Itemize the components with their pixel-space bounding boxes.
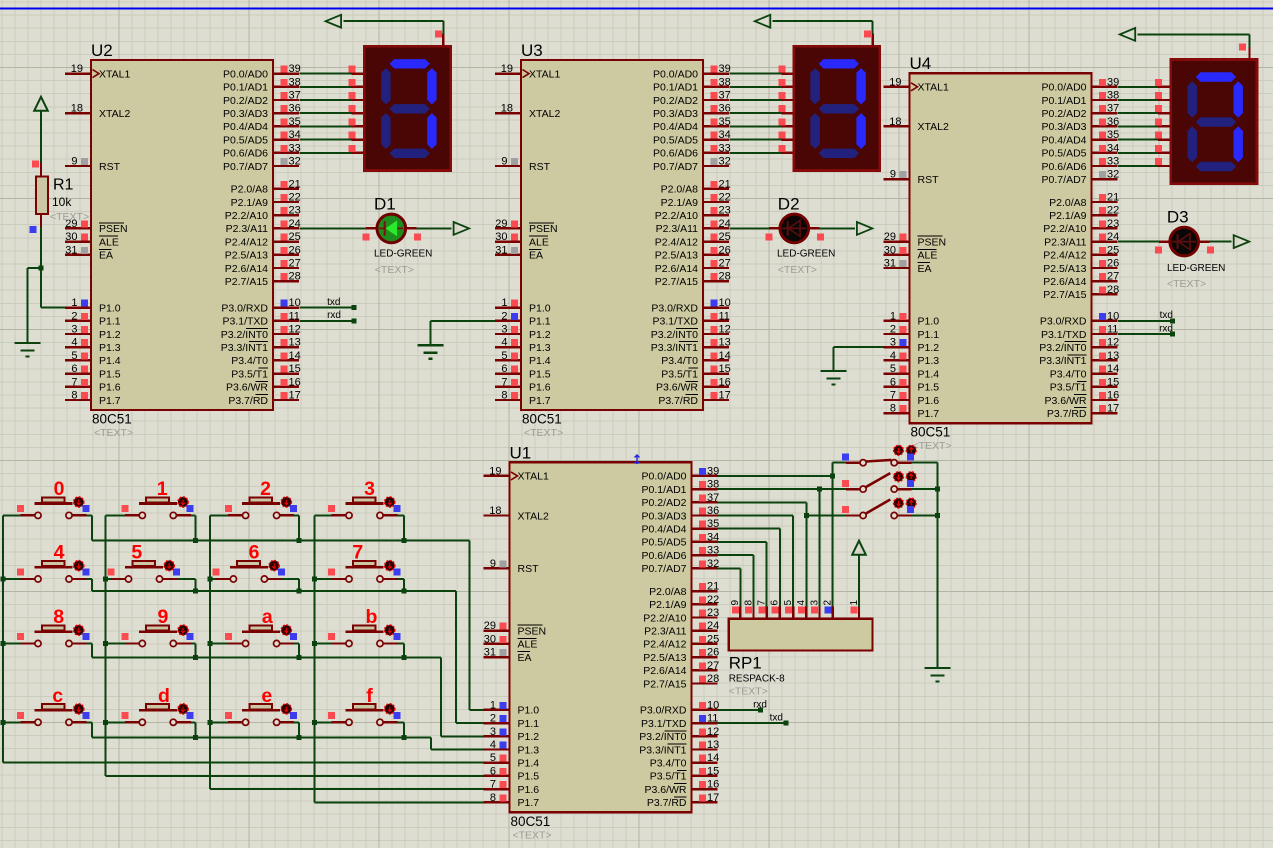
junction row1-col2 [296, 589, 301, 594]
svg-text:U1: U1 [510, 443, 532, 462]
svg-text:P2.1/A9: P2.1/A9 [1049, 210, 1087, 222]
svg-text:26: 26 [707, 647, 719, 659]
svg-text:24: 24 [1107, 231, 1119, 243]
svg-text:P2.0/A8: P2.0/A8 [1049, 197, 1087, 209]
svg-text:7: 7 [490, 779, 496, 791]
svg-text:P2.2/A10: P2.2/A10 [643, 612, 686, 624]
junction C [817, 487, 822, 492]
svg-text:LED-GREEN: LED-GREEN [777, 249, 835, 260]
svg-text:4: 4 [501, 337, 507, 349]
wire U1 rxd [718, 699, 768, 712]
LED D1 labels [374, 195, 432, 277]
ground GND1 [14, 343, 40, 357]
ground GND3 [820, 371, 846, 385]
svg-text:28: 28 [707, 673, 719, 685]
svg-text:29: 29 [884, 231, 896, 243]
svg-text:P1.4: P1.4 [518, 758, 540, 770]
svg-text:36: 36 [289, 103, 301, 115]
junction row0-col3 [401, 538, 406, 543]
wire display DS3 common to terminal [1138, 34, 1250, 59]
svg-text:36: 36 [707, 505, 719, 517]
svg-text:txd: txd [770, 713, 783, 724]
svg-text:a: a [262, 606, 273, 628]
svg-text:P0.1/AD1: P0.1/AD1 [223, 82, 268, 94]
svg-text:<TEXT>: <TEXT> [375, 264, 414, 276]
svg-text:2: 2 [71, 310, 77, 322]
svg-text:39: 39 [1107, 76, 1119, 88]
svg-text:P3.6/WR: P3.6/WR [226, 382, 268, 394]
junction col2-row3 [208, 720, 213, 725]
svg-text:21: 21 [1107, 192, 1119, 204]
svg-text:P2.4/A12: P2.4/A12 [1043, 250, 1086, 262]
svg-text:P1.7: P1.7 [518, 797, 540, 809]
svg-text:P2.1/A9: P2.1/A9 [649, 599, 687, 611]
svg-text:1: 1 [71, 297, 77, 309]
svg-text:12: 12 [289, 324, 301, 336]
svg-text:P1.6: P1.6 [918, 395, 940, 407]
svg-text:rxd: rxd [753, 699, 767, 710]
wire U2 P2.3 to LED D1 [300, 228, 452, 240]
svg-text:P1.1: P1.1 [518, 718, 540, 730]
svg-text:26: 26 [1107, 258, 1119, 270]
LED D1 (lit) [377, 214, 406, 243]
svg-text:P3.2/INT0: P3.2/INT0 [651, 329, 698, 341]
junction A [39, 266, 44, 271]
svg-text:7: 7 [501, 376, 507, 388]
junction col1-row1 [103, 577, 108, 582]
junction B [830, 473, 835, 478]
svg-text:10: 10 [707, 699, 719, 711]
svg-text:6: 6 [770, 600, 781, 606]
svg-text:6: 6 [490, 765, 496, 777]
svg-text:P3.3/INT1: P3.3/INT1 [639, 744, 686, 756]
svg-text:15: 15 [719, 363, 731, 375]
svg-text:8: 8 [71, 390, 77, 402]
svg-text:19: 19 [71, 63, 83, 75]
svg-text:9: 9 [890, 169, 896, 181]
svg-text:38: 38 [289, 76, 301, 88]
svg-text:11: 11 [707, 713, 718, 725]
svg-text:38: 38 [719, 76, 731, 88]
svg-text:P0.1/AD1: P0.1/AD1 [653, 82, 698, 94]
U2 designator label [91, 41, 113, 60]
svg-text:11: 11 [289, 310, 300, 322]
wires U4 P0.0-P0.6 to display DS3 [1118, 79, 1171, 166]
U2 right pins [221, 63, 301, 407]
push button BTND key d [106, 685, 196, 737]
IC U2 80C51 body [91, 60, 273, 410]
svg-text:9: 9 [490, 558, 496, 570]
svg-text:24: 24 [289, 218, 301, 230]
U1 value label 80C51 [511, 814, 551, 829]
svg-text:13: 13 [289, 337, 301, 349]
svg-text:30: 30 [884, 244, 896, 256]
svg-text:XTAL1: XTAL1 [529, 68, 560, 80]
svg-text:txd: txd [1160, 310, 1173, 321]
push button BTN0 key 0 [3, 478, 92, 540]
7-segment display DS1 [364, 46, 450, 170]
svg-text:P1.0: P1.0 [918, 316, 940, 328]
push button BTN5 key 5 [106, 542, 196, 591]
svg-text:P0.7/AD7: P0.7/AD7 [653, 161, 698, 173]
svg-text:30: 30 [65, 231, 77, 243]
svg-text:1: 1 [890, 310, 896, 322]
svg-text:4: 4 [796, 600, 807, 606]
svg-text:P0.2/AD2: P0.2/AD2 [1042, 108, 1087, 120]
svg-text:4: 4 [71, 337, 77, 349]
svg-text:U4: U4 [910, 54, 932, 73]
svg-text:2: 2 [822, 600, 833, 606]
svg-text:5: 5 [501, 350, 507, 362]
svg-text:10: 10 [289, 297, 301, 309]
svg-text:P2.1/A9: P2.1/A9 [231, 197, 269, 209]
U3 designator label [521, 41, 543, 60]
svg-text:P1.2: P1.2 [99, 329, 121, 341]
svg-text:27: 27 [707, 660, 719, 672]
svg-text:P2.2/A10: P2.2/A10 [655, 210, 698, 222]
svg-text:XTAL2: XTAL2 [518, 510, 549, 522]
push button BTNF key f [315, 685, 404, 737]
svg-text:16: 16 [719, 376, 731, 388]
svg-text:P0.5/AD5: P0.5/AD5 [642, 537, 687, 549]
svg-text:9: 9 [71, 156, 77, 168]
LED D2 labels [777, 195, 835, 277]
junction row2-col1 [193, 655, 198, 660]
svg-text:P0.6/AD6: P0.6/AD6 [223, 148, 268, 160]
svg-text:<TEXT>: <TEXT> [50, 211, 89, 223]
svg-text:P0.7/AD7: P0.7/AD7 [1042, 174, 1087, 186]
junction row2-col2 [296, 655, 301, 660]
svg-text:XTAL2: XTAL2 [99, 108, 130, 120]
svg-text:6: 6 [890, 376, 896, 388]
svg-text:5: 5 [890, 363, 896, 375]
junction col0-row2 [1, 641, 6, 646]
svg-text:P2.0/A8: P2.0/A8 [649, 586, 687, 598]
svg-text:80C51: 80C51 [511, 814, 551, 829]
svg-text:37: 37 [1107, 103, 1119, 115]
svg-text:0: 0 [54, 478, 65, 500]
svg-text:P1.3: P1.3 [518, 744, 540, 756]
wire VCC2 to RP1 pin 1 [858, 555, 860, 607]
svg-text:P0.4/AD4: P0.4/AD4 [642, 524, 687, 536]
svg-text:P2.5/A13: P2.5/A13 [655, 250, 698, 262]
junction col3-row1 [312, 577, 317, 582]
svg-text:14: 14 [289, 350, 301, 362]
wire U2 txd [300, 297, 357, 310]
svg-text:P0.5/AD5: P0.5/AD5 [653, 134, 698, 146]
terminal arrow T3 [755, 15, 771, 28]
svg-text:P2.0/A8: P2.0/A8 [231, 184, 269, 196]
svg-text:17: 17 [719, 390, 731, 402]
wire keypad column bus 3 to U1 P1.7 [315, 515, 484, 802]
svg-text:<TEXT>: <TEXT> [524, 427, 563, 439]
svg-text:XTAL1: XTAL1 [518, 471, 549, 483]
svg-text:P0.6/AD6: P0.6/AD6 [653, 148, 698, 160]
svg-text:28: 28 [289, 271, 301, 283]
svg-text:P3.4/T0: P3.4/T0 [650, 758, 687, 770]
junction row0-col1 [193, 538, 198, 543]
svg-text:38: 38 [1107, 90, 1119, 102]
svg-text:9: 9 [157, 606, 168, 628]
wire U1 txd [718, 713, 789, 726]
svg-text:2: 2 [890, 324, 896, 336]
terminal arrow T6 [1234, 235, 1250, 248]
svg-text:P1.2: P1.2 [518, 731, 540, 743]
wire keypad column bus 1 to U1 P1.5 [106, 515, 484, 776]
svg-text:P2.5/A13: P2.5/A13 [1043, 263, 1086, 275]
svg-text:P1.7: P1.7 [99, 395, 121, 407]
LED D2 (off) [780, 214, 809, 243]
svg-text:P2.3/A11: P2.3/A11 [644, 626, 687, 638]
junction col3-row3 [312, 720, 317, 725]
svg-text:P0.2/AD2: P0.2/AD2 [653, 95, 698, 107]
svg-text:P2.7/A15: P2.7/A15 [225, 276, 268, 288]
svg-text:ALE: ALE [529, 236, 549, 248]
wire U4 P2.3 to LED D3 [1118, 242, 1231, 254]
wires U3 P0.0-P0.6 to display DS2 [730, 66, 794, 153]
U4 property label [913, 440, 952, 452]
ground GND2 [418, 345, 444, 359]
wire P0.1 to SW2 [820, 488, 847, 490]
svg-text:P1.0: P1.0 [99, 302, 121, 314]
svg-text:P3.6/WR: P3.6/WR [656, 382, 698, 394]
junction E [935, 487, 940, 492]
svg-text:P1.3: P1.3 [529, 342, 551, 354]
svg-text:P1.0: P1.0 [529, 302, 551, 314]
junction D [804, 513, 809, 518]
svg-text:P2.6/A14: P2.6/A14 [1043, 276, 1086, 288]
svg-text:P1.6: P1.6 [518, 784, 540, 796]
svg-text:1: 1 [157, 478, 168, 500]
RP1 labels [729, 654, 785, 698]
svg-text:ALE: ALE [518, 639, 538, 651]
U1 designator label [510, 443, 532, 462]
svg-text:7: 7 [71, 376, 77, 388]
svg-text:5: 5 [783, 600, 794, 606]
wire R1 to U2 P1.0 and ground [27, 226, 65, 343]
svg-text:33: 33 [1107, 156, 1119, 168]
svg-text:P1.6: P1.6 [529, 382, 551, 394]
svg-text:P1.1: P1.1 [918, 329, 940, 341]
svg-text:8: 8 [53, 606, 64, 628]
svg-text:P2.3/A11: P2.3/A11 [226, 223, 269, 235]
svg-text:P1.5: P1.5 [529, 368, 551, 380]
svg-text:XTAL1: XTAL1 [918, 82, 949, 94]
svg-text:P2.4/A12: P2.4/A12 [655, 236, 698, 248]
svg-text:P3.2/INT0: P3.2/INT0 [221, 329, 268, 341]
svg-text:5: 5 [71, 350, 77, 362]
svg-text:6: 6 [501, 363, 507, 375]
svg-text:P3.1/TXD: P3.1/TXD [641, 718, 687, 730]
U4 left pins [884, 76, 949, 420]
junction col0-row3 [1, 720, 6, 725]
push button BTNC key c [3, 685, 92, 737]
svg-text:11: 11 [1107, 324, 1118, 336]
svg-text:P1.1: P1.1 [529, 316, 551, 328]
wire keypad column bus 0 to U1 P1.4 [3, 515, 484, 762]
wire keypad row bus 2 to U1 P1.2 [92, 658, 484, 737]
push button BTN1 key 1 [106, 478, 196, 540]
svg-text:R1: R1 [53, 177, 74, 194]
svg-text:P3.1/TXD: P3.1/TXD [652, 316, 698, 328]
svg-text:P0.0/AD0: P0.0/AD0 [642, 471, 687, 483]
svg-text:P2.6/A14: P2.6/A14 [655, 263, 698, 275]
svg-text:P0.4/AD4: P0.4/AD4 [223, 121, 268, 133]
svg-text:22: 22 [707, 594, 719, 606]
svg-text:22: 22 [1107, 205, 1119, 217]
junction row3-col2 [296, 735, 301, 740]
svg-text:8: 8 [743, 600, 754, 606]
svg-text:35: 35 [719, 116, 731, 128]
svg-text:P3.1/TXD: P3.1/TXD [222, 316, 268, 328]
svg-text:P2.7/A15: P2.7/A15 [643, 678, 686, 690]
svg-text:35: 35 [289, 116, 301, 128]
switch SW2 (open) [842, 472, 916, 492]
terminal arrow T5 [1120, 28, 1136, 41]
power terminal VCC2 [852, 541, 866, 555]
svg-text:d: d [158, 685, 170, 707]
svg-text:rxd: rxd [1159, 323, 1173, 334]
svg-text:13: 13 [707, 739, 719, 751]
svg-text:32: 32 [707, 558, 719, 570]
wire keypad row bus 0 to U1 P1.0 [92, 541, 484, 710]
svg-text:LED-GREEN: LED-GREEN [1167, 263, 1225, 274]
svg-text:36: 36 [719, 103, 731, 115]
svg-text:39: 39 [719, 63, 731, 75]
svg-text:12: 12 [1107, 337, 1119, 349]
svg-text:XTAL2: XTAL2 [529, 108, 560, 120]
svg-text:P0.6/AD6: P0.6/AD6 [1042, 161, 1087, 173]
wire U4 rxd [1118, 323, 1175, 336]
svg-text:18: 18 [889, 116, 901, 128]
wire SW2 output [911, 488, 937, 490]
svg-text:P0.2/AD2: P0.2/AD2 [642, 497, 687, 509]
svg-text:80C51: 80C51 [911, 425, 951, 440]
svg-text:6: 6 [249, 542, 260, 564]
svg-text:P0.1/AD1: P0.1/AD1 [642, 484, 687, 496]
svg-text:PSEN: PSEN [918, 236, 947, 248]
junction row1-col3 [401, 589, 406, 594]
svg-text:rxd: rxd [327, 310, 341, 321]
svg-text:EA: EA [99, 250, 113, 262]
svg-text:<TEXT>: <TEXT> [1167, 278, 1206, 290]
svg-text:P0.3/AD3: P0.3/AD3 [653, 108, 698, 120]
svg-text:27: 27 [289, 258, 301, 270]
svg-text:P2.5/A13: P2.5/A13 [643, 652, 686, 664]
switch SW3 (open) [842, 498, 916, 518]
sheet border (top edge) [0, 8, 1273, 10]
svg-text:13: 13 [1107, 350, 1119, 362]
wire P0.0 riser to SW1 [833, 463, 846, 476]
svg-text:P1.5: P1.5 [918, 382, 940, 394]
junction col2-row2 [208, 641, 213, 646]
svg-text:27: 27 [719, 258, 731, 270]
wire U4 txd [1118, 310, 1175, 323]
svg-text:38: 38 [707, 479, 719, 491]
wire SW3 output [911, 515, 937, 517]
svg-text:P2.2/A10: P2.2/A10 [225, 210, 268, 222]
svg-text:P3.2/INT0: P3.2/INT0 [639, 731, 686, 743]
svg-text:P0.3/AD3: P0.3/AD3 [642, 510, 687, 522]
svg-text:3: 3 [490, 726, 496, 738]
svg-text:P1.6: P1.6 [99, 382, 121, 394]
svg-text:P0.0/AD0: P0.0/AD0 [1042, 82, 1087, 94]
svg-text:<TEXT>: <TEXT> [513, 829, 552, 841]
svg-text:29: 29 [495, 218, 507, 230]
U2 value label 80C51 [92, 412, 132, 427]
svg-text:P3.7/RD: P3.7/RD [1047, 408, 1087, 420]
junction col2-row1 [208, 577, 213, 582]
svg-text:P1.3: P1.3 [918, 355, 940, 367]
svg-text:P0.4/AD4: P0.4/AD4 [1042, 134, 1087, 146]
R1 labels [50, 177, 89, 224]
svg-text:31: 31 [884, 258, 896, 270]
U1 origin marker [635, 455, 640, 463]
svg-text:21: 21 [289, 178, 301, 190]
svg-text:ALE: ALE [99, 236, 119, 248]
svg-text:PSEN: PSEN [99, 223, 128, 235]
svg-text:P3.3/INT1: P3.3/INT1 [651, 342, 698, 354]
svg-text:35: 35 [1107, 129, 1119, 141]
svg-text:P3.6/WR: P3.6/WR [1044, 395, 1086, 407]
svg-text:35: 35 [707, 518, 719, 530]
wire U3 P1.1 to ground [431, 321, 496, 345]
svg-text:17: 17 [289, 390, 301, 402]
svg-text:P3.3/INT1: P3.3/INT1 [1039, 355, 1086, 367]
U3 right pins [651, 63, 731, 407]
svg-text:23: 23 [1107, 218, 1119, 230]
svg-text:P0.2/AD2: P0.2/AD2 [223, 95, 268, 107]
svg-text:8: 8 [890, 403, 896, 415]
svg-text:P3.0/RXD: P3.0/RXD [221, 302, 268, 314]
svg-text:e: e [261, 685, 272, 707]
junction row2-col3 [401, 655, 406, 660]
resistor R1 [36, 163, 48, 227]
wire SW1 output [911, 462, 937, 464]
svg-text:12: 12 [707, 726, 719, 738]
svg-text:ALE: ALE [918, 250, 938, 262]
push button BTNA key a [210, 606, 299, 657]
svg-text:<TEXT>: <TEXT> [913, 440, 952, 452]
push button BTN2 key 2 [210, 478, 299, 540]
svg-text:1: 1 [490, 699, 496, 711]
svg-text:P1.0: P1.0 [518, 705, 540, 717]
wire keypad row bus 3 to U1 P1.3 [92, 737, 484, 749]
junction row1-col1 [193, 589, 198, 594]
U3 left pins [495, 63, 560, 407]
svg-text:RST: RST [529, 161, 551, 173]
svg-text:33: 33 [719, 142, 731, 154]
svg-text:14: 14 [1107, 363, 1119, 375]
svg-text:9: 9 [730, 600, 741, 606]
svg-text:P0.6/AD6: P0.6/AD6 [642, 550, 687, 562]
svg-text:34: 34 [1107, 142, 1119, 154]
svg-text:PSEN: PSEN [529, 223, 558, 235]
svg-text:P3.3/INT1: P3.3/INT1 [221, 342, 268, 354]
svg-text:37: 37 [707, 492, 719, 504]
junction col1-row2 [103, 641, 108, 646]
svg-text:P1.2: P1.2 [529, 329, 551, 341]
svg-text:P1.5: P1.5 [99, 368, 121, 380]
svg-text:32: 32 [289, 156, 301, 168]
7-segment display DS2 [794, 46, 880, 170]
IC U4 80C51 body [910, 73, 1092, 423]
svg-text:RP1: RP1 [729, 654, 762, 673]
svg-text:23: 23 [719, 205, 731, 217]
svg-text:22: 22 [289, 192, 301, 204]
svg-text:12: 12 [719, 324, 731, 336]
svg-text:9: 9 [501, 156, 507, 168]
